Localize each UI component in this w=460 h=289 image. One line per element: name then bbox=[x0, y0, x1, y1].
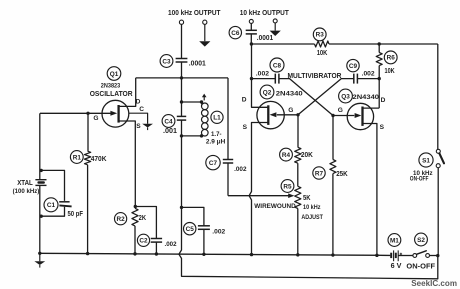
wire Q2 source with hopover bbox=[249, 123, 268, 255]
wire tank bottom bbox=[182, 135, 202, 137]
node junction Q2 gate / R4 bbox=[296, 113, 299, 116]
capacitor C7 bbox=[223, 160, 233, 164]
wire drain to C8 bbox=[252, 78, 276, 80]
wire V+ rail to S1 bbox=[437, 44, 439, 149]
svg-text:C1: C1 bbox=[47, 202, 56, 209]
node junction bus/R7 bbox=[331, 253, 334, 256]
wire ground bus bbox=[40, 253, 391, 255]
svg-text:R5: R5 bbox=[283, 183, 292, 190]
resistor R3 10K bbox=[315, 41, 330, 47]
svg-text:.002: .002 bbox=[362, 70, 375, 77]
wire Q3 drain lead bbox=[363, 107, 380, 109]
node junction drain rail / C3 bbox=[180, 76, 183, 79]
value 5K bbox=[303, 195, 311, 202]
label 10 kHz (R5) bbox=[303, 204, 321, 211]
wire Q1 source lead bbox=[119, 121, 135, 207]
capacitor C6 bbox=[246, 30, 257, 34]
slug tuning arrow above L1 bbox=[202, 94, 207, 101]
wire C9 to Q2 gate (diagonal) bbox=[298, 79, 354, 115]
node junction Q1 source / R2 / C2 bbox=[134, 205, 137, 208]
capacitor C4 bbox=[177, 116, 186, 120]
svg-text:Q1: Q1 bbox=[110, 71, 119, 78]
resistor R2 2K bbox=[132, 208, 138, 226]
svg-text:100 kHz OUTPUT: 100 kHz OUTPUT bbox=[168, 10, 221, 17]
label circle S1 bbox=[419, 153, 433, 167]
node junction Q3 drain / C9 bbox=[378, 77, 381, 80]
wire drain rail down to C7 bbox=[227, 78, 229, 159]
svg-text:L1: L1 bbox=[213, 115, 221, 122]
svg-text:470K: 470K bbox=[91, 156, 107, 163]
svg-text:S: S bbox=[243, 124, 248, 131]
label XTAL bbox=[17, 180, 33, 187]
label circle R4 bbox=[280, 148, 293, 161]
wire C3 to oscillator drain rail bbox=[181, 62, 183, 78]
svg-text:D: D bbox=[242, 96, 247, 103]
svg-text:C3: C3 bbox=[162, 58, 171, 65]
svg-text:C: C bbox=[139, 106, 144, 113]
battery M1 6V bbox=[391, 250, 402, 261]
label circle R1 bbox=[70, 151, 83, 164]
ground at 100 kHz output bbox=[199, 24, 210, 46]
label circle R6 bbox=[384, 51, 397, 64]
pin G (Q2) bbox=[288, 107, 293, 114]
svg-text:ADJUST: ADJUST bbox=[301, 214, 323, 221]
capacitor C8 bbox=[275, 74, 279, 84]
node junction bus/C2 bbox=[155, 252, 158, 255]
pin D (Q2) bbox=[242, 96, 247, 103]
value 1.7- bbox=[211, 131, 222, 138]
svg-text:M1: M1 bbox=[390, 237, 399, 244]
label 10 kHz (S1) bbox=[413, 170, 433, 177]
wire C9 to Q3 drain line bbox=[358, 78, 380, 80]
wire C4 to tank and down bbox=[181, 120, 183, 207]
svg-text:6 V: 6 V bbox=[391, 263, 402, 270]
value .002 (C5) bbox=[212, 228, 225, 235]
switch S1 contact top bbox=[436, 149, 440, 153]
node junction V+ / R6 bbox=[378, 42, 381, 45]
wire battery to S2 bbox=[398, 255, 413, 257]
value 10K (R6) bbox=[385, 68, 395, 75]
node junction bus/R2 bbox=[133, 252, 136, 255]
svg-text:OSCILLATOR: OSCILLATOR bbox=[90, 89, 133, 98]
ground at 10 kHz output bbox=[270, 23, 281, 36]
svg-text:G: G bbox=[93, 115, 98, 122]
value 6 V bbox=[391, 263, 402, 270]
svg-text:10 kHz OUTPUT: 10 kHz OUTPUT bbox=[240, 10, 290, 17]
value 10K (R3) bbox=[317, 50, 328, 57]
wire gate junction to R1 bbox=[87, 113, 89, 151]
svg-text:R3: R3 bbox=[316, 32, 325, 39]
node junction tank bottom right bbox=[200, 134, 203, 137]
wire oscillator drain rail bbox=[136, 77, 228, 79]
svg-text:S1: S1 bbox=[422, 157, 430, 164]
value .002 (C8) bbox=[256, 70, 270, 77]
wire C6 to drain node bbox=[250, 34, 252, 44]
potentiometer R5 5K wirewound bbox=[295, 186, 301, 208]
ground at Q1 case bbox=[142, 124, 153, 131]
wire drain rail down to tank bbox=[181, 78, 183, 116]
wire R7 to ground bus bbox=[332, 174, 334, 255]
inductor L1 bbox=[202, 102, 209, 136]
wire C5 to ground bus bbox=[203, 229, 205, 254]
svg-text:R2: R2 bbox=[117, 216, 126, 223]
svg-text:(100 kHz): (100 kHz) bbox=[13, 188, 40, 195]
node junction tank top left bbox=[180, 100, 183, 103]
capacitor C1 (trimmer) bbox=[59, 202, 71, 207]
wire R1 to ground bus bbox=[87, 165, 89, 254]
label circle C8 bbox=[270, 58, 284, 72]
label 10 kHz OUTPUT bbox=[240, 10, 290, 17]
capacitor C3 bbox=[176, 59, 188, 63]
node junction bus/ground bbox=[38, 252, 41, 255]
wire C8 to Q3 gate (diagonal) bbox=[279, 79, 333, 116]
svg-text:C9: C9 bbox=[349, 63, 358, 70]
svg-text:Q3: Q3 bbox=[341, 93, 350, 100]
label circle C3 bbox=[160, 55, 173, 68]
transistor Q3 2N4340 bbox=[333, 103, 374, 129]
ground at bus left end bbox=[34, 253, 45, 267]
label circle C1 bbox=[44, 198, 58, 212]
switch S2 lever bbox=[417, 251, 427, 255]
value .0001 (C3) bbox=[189, 61, 206, 68]
node junction bus/Q3 source bbox=[375, 254, 378, 257]
node junction bus/R5 bbox=[296, 253, 299, 256]
label circle S2 bbox=[415, 233, 428, 246]
transistor Q1 2N3823 bbox=[40, 100, 129, 127]
transistor Q2 2N4340 bbox=[257, 101, 298, 128]
wire tank top bbox=[182, 101, 202, 103]
svg-text:S: S bbox=[136, 123, 141, 130]
node junction gate/R1 bbox=[86, 112, 89, 115]
wire sync line to R5 wiper bbox=[228, 193, 294, 198]
label ON-OFF (S1) bbox=[410, 175, 429, 182]
resistor R7 25K bbox=[330, 160, 336, 174]
capacitor C2 bbox=[151, 239, 162, 243]
svg-text:.002: .002 bbox=[165, 241, 177, 248]
capacitor C5 bbox=[198, 226, 210, 230]
value 2.9 uH bbox=[206, 138, 225, 145]
svg-text:10K: 10K bbox=[317, 50, 328, 57]
svg-text:G: G bbox=[288, 107, 293, 114]
value .002 (C9) bbox=[362, 70, 375, 77]
wire Q2 drain line bbox=[252, 44, 269, 107]
svg-text:R4: R4 bbox=[282, 152, 291, 159]
svg-text:C7: C7 bbox=[209, 160, 218, 167]
wire 10kHz terminal to C6 bbox=[250, 23, 252, 30]
node junction C6 / R3 / Q2 drain bbox=[250, 42, 253, 45]
wire C1 branch top bbox=[41, 170, 64, 201]
svg-text:ON-OFF: ON-OFF bbox=[410, 175, 429, 182]
wire R6 top bbox=[378, 44, 380, 53]
value .0001 (C6) bbox=[257, 35, 273, 42]
label circle M1 bbox=[388, 234, 401, 247]
svg-text:5K: 5K bbox=[303, 195, 311, 202]
label MULTIVIBRATOR bbox=[288, 71, 342, 80]
label circle C9 bbox=[347, 59, 359, 71]
node junction xtal bottom / C1 bbox=[40, 215, 43, 218]
node junction bus/C5 bbox=[202, 253, 205, 256]
pin D (Q3) bbox=[381, 97, 386, 104]
value .002 (C7) bbox=[234, 166, 247, 173]
watermark SeekIC.com bbox=[411, 279, 457, 288]
svg-text:C4: C4 bbox=[164, 118, 173, 125]
node: 10 kHz output terminal (hot) bbox=[249, 19, 253, 23]
label OSCILLATOR bbox=[90, 89, 133, 98]
wire Q2 gate to R4 bbox=[297, 115, 299, 148]
label ON-OFF (S2) bbox=[406, 263, 435, 270]
wire R5 to ground bus bbox=[297, 209, 299, 255]
svg-text:MULTIVIBRATOR: MULTIVIBRATOR bbox=[288, 71, 342, 80]
wire supply line with hopover at ground bus bbox=[179, 207, 438, 278]
pin G (Q1) bbox=[93, 115, 98, 122]
label 2N4340 (Q2) bbox=[276, 91, 303, 98]
pin S (Q2) bbox=[243, 124, 248, 131]
node junction Q3 gate / R7 bbox=[331, 114, 334, 117]
svg-text:WIREWOUND: WIREWOUND bbox=[254, 203, 295, 210]
node junction Q2 drain / C8 bbox=[250, 77, 253, 80]
wire C1 branch bottom bbox=[41, 207, 64, 216]
wire R6 to Q3 drain bbox=[378, 66, 380, 109]
switch S2 contact right bbox=[426, 254, 430, 258]
node junction tank bottom left bbox=[180, 134, 183, 137]
svg-text:.0001: .0001 bbox=[189, 61, 206, 68]
svg-text:10 kHz: 10 kHz bbox=[303, 204, 321, 211]
label circle L1 bbox=[211, 111, 223, 123]
resistor R6 10K bbox=[376, 53, 382, 66]
label circle C4 bbox=[162, 115, 175, 128]
node: 10 kHz output terminal (gnd) bbox=[273, 19, 277, 23]
pin C (Q1) bbox=[139, 106, 144, 113]
node junction tank top right bbox=[200, 100, 203, 103]
resistor R1 470K bbox=[85, 151, 91, 165]
wire left rail below crystal bbox=[39, 186, 41, 254]
wire C2 branch bbox=[135, 207, 156, 239]
label (100 kHz) bbox=[13, 188, 40, 195]
resistor R4 20K bbox=[295, 147, 301, 163]
label 2N4340 (Q3) bbox=[353, 94, 380, 101]
wire top rail right (V+) bbox=[329, 43, 438, 45]
value 25K bbox=[336, 171, 348, 178]
label circle C6 bbox=[229, 26, 241, 38]
wire C2 to ground bus bbox=[155, 242, 157, 254]
pin S (Q1) bbox=[136, 123, 141, 130]
svg-text:C5: C5 bbox=[186, 226, 195, 233]
node junction S1 / S2 / V+ return bbox=[436, 254, 439, 257]
pin S (Q3) bbox=[380, 124, 385, 131]
svg-text:2N4340: 2N4340 bbox=[353, 94, 380, 101]
svg-text:S: S bbox=[380, 124, 385, 131]
wire S1 to battery junction bbox=[437, 168, 439, 256]
svg-text:SeekIC.com: SeekIC.com bbox=[411, 279, 457, 288]
pin G (Q3) bbox=[338, 107, 343, 114]
svg-text:ON-OFF: ON-OFF bbox=[406, 263, 435, 270]
svg-text:R7: R7 bbox=[315, 170, 324, 177]
pin D (Q1) bbox=[136, 98, 141, 105]
label circle C2 bbox=[137, 234, 149, 246]
wire Q1 case lead bbox=[129, 113, 148, 123]
wire Q3 source to ground bus bbox=[363, 124, 377, 256]
value 2K bbox=[139, 215, 146, 222]
svg-text:2.9 μH: 2.9 μH bbox=[206, 138, 225, 145]
value .001 (C4) bbox=[163, 128, 177, 135]
svg-text:.0001: .0001 bbox=[257, 35, 273, 42]
label circle R2 bbox=[115, 213, 127, 225]
svg-text:R1: R1 bbox=[73, 154, 82, 161]
switch S1 lever bbox=[439, 153, 444, 163]
wire gate rail to left rail bbox=[39, 113, 41, 179]
wire 100kHz terminal to C3 bbox=[181, 24, 183, 58]
label circle Q2 bbox=[260, 85, 274, 99]
node junction supply / C5 bbox=[180, 206, 183, 209]
label circle R3 bbox=[313, 28, 326, 41]
wire S2 to junction bbox=[430, 255, 438, 257]
svg-text:1.7-: 1.7- bbox=[211, 131, 222, 138]
svg-text:R6: R6 bbox=[387, 55, 396, 62]
node: 100 kHz output terminal (hot) bbox=[179, 20, 183, 24]
label circle C5 bbox=[184, 223, 196, 235]
svg-text:Q2: Q2 bbox=[263, 89, 272, 96]
svg-text:S2: S2 bbox=[417, 237, 425, 244]
label 100 kHz OUTPUT bbox=[168, 10, 221, 17]
label circle Q1 bbox=[107, 67, 121, 81]
value 470K bbox=[91, 156, 107, 163]
svg-text:.002: .002 bbox=[256, 70, 270, 77]
wire R2 to ground bus bbox=[134, 226, 136, 254]
node junction bus/Q2 source bbox=[250, 253, 253, 256]
wire Q3 gate to R7 bbox=[332, 116, 334, 160]
switch S1 contact bottom bbox=[436, 164, 440, 168]
node junction xtal top / C1 bbox=[40, 169, 43, 172]
switch S2 contact left bbox=[413, 254, 417, 258]
wire C5 branch bbox=[182, 207, 204, 225]
svg-text:.002: .002 bbox=[212, 228, 225, 235]
label circle C7 bbox=[206, 155, 220, 169]
svg-text:10K: 10K bbox=[385, 68, 395, 75]
label circle R5 bbox=[281, 180, 294, 193]
wire R4 to R5 bbox=[297, 163, 299, 186]
node: 100 kHz output terminal (gnd) bbox=[203, 20, 207, 24]
capacitor C9 bbox=[354, 74, 358, 84]
label circle Q3 bbox=[339, 89, 353, 103]
svg-text:2N4340: 2N4340 bbox=[276, 91, 303, 98]
crystal XTAL 100 kHz bbox=[35, 180, 46, 186]
svg-text:G: G bbox=[338, 107, 343, 114]
value 50 pF bbox=[68, 211, 84, 218]
wire top rail left (Q2 drain node) bbox=[251, 43, 314, 45]
label circle R7 bbox=[313, 167, 325, 179]
svg-text:D: D bbox=[136, 98, 141, 105]
wire Q1 drain lead bbox=[119, 78, 136, 107]
svg-text:D: D bbox=[381, 97, 386, 104]
svg-text:.002: .002 bbox=[234, 166, 247, 173]
label 2N3823 bbox=[101, 83, 121, 90]
wire C7 to wiper line bbox=[227, 163, 229, 196]
svg-text:20K: 20K bbox=[301, 152, 313, 159]
label ADJUST bbox=[301, 214, 323, 221]
svg-text:.001: .001 bbox=[163, 128, 177, 135]
node junction bus/R1 bbox=[86, 252, 89, 255]
svg-text:C2: C2 bbox=[139, 238, 148, 245]
svg-text:XTAL: XTAL bbox=[17, 180, 33, 187]
svg-text:25K: 25K bbox=[336, 171, 348, 178]
svg-text:C8: C8 bbox=[273, 62, 282, 69]
value 20K bbox=[301, 152, 313, 159]
svg-text:2K: 2K bbox=[139, 215, 146, 222]
svg-text:C6: C6 bbox=[231, 30, 240, 37]
value .002 (C2) bbox=[165, 241, 177, 248]
svg-text:50 pF: 50 pF bbox=[68, 211, 84, 218]
label WIREWOUND bbox=[254, 203, 295, 210]
